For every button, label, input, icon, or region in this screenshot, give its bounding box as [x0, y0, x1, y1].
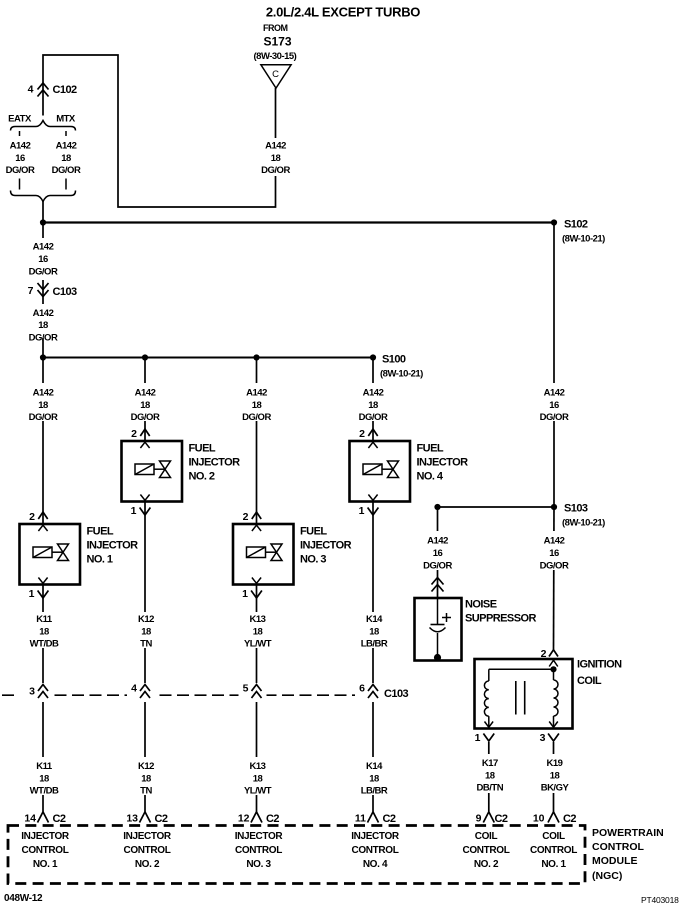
svg-text:C2: C2 — [53, 813, 66, 825]
wire col3 fuel injector 3 down to PCM pin 12 — [256, 585, 258, 812]
svg-text:COIL: COIL — [542, 831, 565, 842]
svg-text:CONTROL: CONTROL — [530, 845, 577, 856]
svg-text:18: 18 — [253, 774, 263, 785]
ignition coil primary junction dot — [550, 666, 556, 672]
MTX branch wire stub — [65, 131, 67, 136]
svg-text:POWERTRAIN: POWERTRAIN — [592, 827, 664, 839]
wire label A142 18 DG/OR (MTX) — [52, 141, 81, 177]
svg-text:DG/OR: DG/OR — [540, 561, 569, 572]
svg-text:18: 18 — [550, 771, 560, 782]
PCM pin 14 chevron C2 — [24, 812, 66, 825]
svg-text:FUEL: FUEL — [300, 526, 327, 538]
svg-text:EATX: EATX — [8, 114, 32, 125]
svg-text:16: 16 — [38, 254, 48, 265]
svg-text:S103: S103 — [564, 503, 588, 515]
fuel injector 1 pin 1 chevron — [38, 591, 49, 599]
svg-text:A142: A142 — [33, 388, 54, 399]
PCM pin 9 chevron C2 — [476, 812, 508, 825]
svg-text:NO. 4: NO. 4 — [363, 859, 388, 870]
svg-text:18: 18 — [369, 774, 379, 785]
svg-text:DG/OR: DG/OR — [29, 412, 58, 423]
svg-text:16: 16 — [549, 548, 559, 559]
ignition coil pin 3 chevron — [548, 734, 559, 742]
svg-text:DG/OR: DG/OR — [359, 412, 388, 423]
wire label K14 18 LB/BR (lower) — [361, 761, 388, 797]
svg-text:18: 18 — [369, 627, 379, 638]
svg-text:LB/BR: LB/BR — [361, 639, 388, 650]
svg-text:13: 13 — [126, 813, 138, 825]
svg-text:DG/OR: DG/OR — [6, 165, 35, 176]
svg-text:INJECTOR: INJECTOR — [300, 540, 352, 552]
wire label A142 18 DG/OR col1 — [29, 388, 58, 424]
svg-text:2: 2 — [131, 428, 137, 440]
wire label K11 18 WT/DB (lower) — [30, 761, 59, 797]
svg-text:NO. 3: NO. 3 — [300, 554, 326, 566]
svg-text:16: 16 — [549, 400, 559, 411]
svg-text:7: 7 — [28, 285, 34, 297]
off-page connector triangle C — [261, 65, 291, 88]
svg-text:1: 1 — [131, 505, 137, 517]
svg-text:C2: C2 — [266, 813, 279, 825]
svg-text:INJECTOR: INJECTOR — [123, 831, 172, 842]
wire noise suppressor node down to noise suppressor — [437, 507, 439, 598]
svg-text:5: 5 — [243, 683, 249, 695]
svg-text:CONTROL: CONTROL — [463, 845, 510, 856]
svg-text:C103: C103 — [53, 286, 78, 298]
svg-text:A142: A142 — [265, 141, 286, 152]
svg-text:WT/DB: WT/DB — [30, 786, 59, 797]
svg-text:MODULE: MODULE — [592, 855, 638, 867]
svg-text:DG/OR: DG/OR — [423, 561, 452, 572]
EATX branch wire stub — [19, 131, 21, 136]
svg-text:DG/OR: DG/OR — [261, 165, 290, 176]
svg-text:K12: K12 — [138, 761, 154, 772]
svg-text:CONTROL: CONTROL — [592, 841, 644, 853]
ignition coil label — [577, 659, 622, 688]
svg-text:A142: A142 — [33, 242, 54, 253]
main bus wire from node to S102 — [43, 221, 554, 223]
svg-text:2.0L/2.4L EXCEPT TURBO: 2.0L/2.4L EXCEPT TURBO — [266, 5, 420, 20]
svg-text:DG/OR: DG/OR — [52, 165, 81, 176]
svg-text:C2: C2 — [495, 813, 508, 825]
svg-text:NO. 1: NO. 1 — [87, 554, 113, 566]
wire label K12 18 TN (lower) — [138, 761, 154, 797]
PCM injector control no. 4 label — [351, 831, 400, 870]
splice S100 — [370, 354, 423, 380]
svg-text:18: 18 — [252, 400, 262, 411]
svg-text:18: 18 — [368, 400, 378, 411]
svg-text:DB/TN: DB/TN — [477, 783, 504, 794]
fuel injector 1 — [20, 524, 81, 585]
svg-text:NO. 2: NO. 2 — [135, 859, 160, 870]
svg-text:K13: K13 — [250, 614, 266, 625]
wire ignition coil pin 3 down to PCM pin 10 — [553, 742, 555, 812]
svg-text:A142: A142 — [427, 536, 448, 547]
svg-text:FUEL: FUEL — [417, 443, 444, 455]
MTX branch lower stub — [65, 179, 67, 190]
noise suppressor label — [465, 599, 537, 625]
svg-text:C2: C2 — [563, 813, 576, 825]
wire col4 S100 down to fuel injector 4 — [372, 358, 374, 442]
fuel injector 4 pin 2 chevron — [368, 429, 377, 436]
svg-text:DG/OR: DG/OR — [242, 412, 271, 423]
svg-text:K19: K19 — [547, 758, 563, 769]
svg-text:K13: K13 — [250, 761, 266, 772]
junction node col3 on S100 bus — [253, 354, 259, 360]
ignition coil pin 2 chevron — [549, 650, 558, 657]
svg-text:INJECTOR: INJECTOR — [235, 831, 284, 842]
fuel injector 1 pin 2 chevron — [38, 512, 47, 519]
svg-text:18: 18 — [39, 774, 49, 785]
svg-text:NO. 4: NO. 4 — [417, 471, 444, 483]
splice S102 — [551, 219, 605, 245]
wire label K11 18 WT/DB (upper) — [30, 614, 59, 650]
svg-text:YL/WT: YL/WT — [244, 639, 272, 650]
wire label A142 16 DG/OR (EATX) — [6, 141, 35, 177]
node at EATX/MTX merge — [40, 219, 46, 225]
svg-text:4: 4 — [131, 683, 137, 695]
wire S103 down to ignition coil pin 2 — [553, 507, 556, 650]
wire ignition coil pin 1 down to PCM pin 9 — [488, 742, 490, 812]
svg-text:NO. 1: NO. 1 — [33, 859, 58, 870]
connector C103 pin 7 chevrons — [38, 283, 49, 297]
svg-text:(NGC): (NGC) — [592, 870, 622, 882]
svg-text:NO. 2: NO. 2 — [474, 859, 499, 870]
svg-text:INJECTOR: INJECTOR — [87, 540, 139, 552]
svg-text:NOISE: NOISE — [465, 599, 497, 611]
ignition coil pin 1 chevron — [483, 734, 494, 742]
svg-text:LB/BR: LB/BR — [361, 786, 388, 797]
fuel injector 2 pin 2 chevron — [140, 429, 149, 436]
PCM injector control no. 3 label — [235, 831, 284, 870]
svg-text:2: 2 — [359, 428, 365, 440]
wire label K17 18 DB/TN — [477, 758, 504, 794]
wire label A142 16 DG/OR (col1 above C103) — [29, 242, 58, 278]
svg-text:16: 16 — [15, 153, 25, 164]
powertrain control module (NGC) dashed box — [8, 826, 585, 884]
wire label A142 18 DG/OR (S173 feed) — [261, 141, 290, 177]
svg-text:INJECTOR: INJECTOR — [21, 831, 70, 842]
svg-text:1: 1 — [475, 732, 481, 744]
svg-text:PT403018: PT403018 — [641, 895, 679, 904]
wire label A142 18 DG/OR (col1 below C103) — [29, 308, 58, 344]
svg-text:S173: S173 — [264, 35, 292, 49]
svg-text:9: 9 — [476, 813, 482, 825]
svg-text:A142: A142 — [10, 141, 31, 152]
label mask rects — [26, 138, 572, 795]
noise suppressor ground dot — [434, 654, 441, 661]
wire col2 S100 bus down to fuel injector 2 — [144, 358, 146, 442]
PCM pin 13 chevron C2 — [126, 812, 168, 825]
svg-text:1: 1 — [29, 588, 35, 600]
option split brace (top) — [11, 121, 76, 131]
wire col1 from EATX/MTX merge node down to S100 bus — [42, 202, 44, 358]
fuel injector 4 — [350, 441, 411, 502]
svg-text:FROM: FROM — [263, 23, 288, 33]
wire col4 fuel injector 4 down to PCM pin 11 — [372, 502, 374, 812]
svg-text:DG/OR: DG/OR — [540, 412, 569, 423]
fuel injector 2 label — [189, 443, 241, 483]
fuel injector 3 pin 2 chevron — [252, 512, 261, 519]
svg-text:INJECTOR: INJECTOR — [417, 457, 469, 469]
PCM pin 12 chevron C2 — [238, 812, 280, 825]
svg-text:A142: A142 — [363, 388, 384, 399]
svg-text:1: 1 — [242, 588, 248, 600]
svg-text:NO. 2: NO. 2 — [189, 471, 215, 483]
svg-text:C103: C103 — [384, 688, 409, 700]
noise suppressor connector chevrons — [432, 578, 444, 592]
junction node col1 on S100 bus — [40, 354, 46, 360]
node label FROM S173 — [254, 23, 297, 62]
svg-text:(8W-10-21): (8W-10-21) — [380, 369, 423, 380]
svg-text:FUEL: FUEL — [87, 526, 114, 538]
svg-text:C: C — [272, 69, 279, 80]
wire col1 S100 bus down to fuel injector 1 — [42, 358, 44, 525]
wire label A142 18 DG/OR col4 — [359, 388, 388, 424]
connector C103 pin 3 chevrons — [38, 685, 48, 699]
svg-text:MTX: MTX — [56, 114, 76, 125]
connector C103 pin 5 chevrons — [252, 685, 262, 699]
wire label A142 18 DG/OR col2 — [131, 388, 160, 424]
svg-text:A142: A142 — [33, 308, 54, 319]
svg-text:TN: TN — [140, 786, 152, 797]
svg-text:YL/WT: YL/WT — [244, 786, 272, 797]
svg-text:1: 1 — [359, 505, 365, 517]
svg-text:18: 18 — [271, 153, 281, 164]
PCM injector control no. 1 label — [21, 831, 70, 870]
svg-text:2: 2 — [243, 511, 249, 523]
PCM pin 10 chevron C2 — [533, 812, 577, 825]
powertrain control module (NGC) label — [592, 827, 664, 882]
svg-text:18: 18 — [38, 400, 48, 411]
EATX branch lower stub — [19, 179, 21, 190]
svg-text:A142: A142 — [56, 141, 77, 152]
noise suppressor — [415, 598, 462, 661]
svg-text:CONTROL: CONTROL — [22, 845, 69, 856]
PCM coil control no. 2 label — [463, 831, 510, 870]
svg-text:11: 11 — [355, 813, 366, 825]
fuel injector 3 label — [300, 526, 352, 566]
svg-text:(8W-10-21): (8W-10-21) — [562, 518, 605, 529]
svg-text:K17: K17 — [482, 758, 498, 769]
svg-text:A142: A142 — [246, 388, 267, 399]
connector C102 pin 4 chevrons — [38, 83, 49, 97]
svg-text:K14: K14 — [366, 761, 383, 772]
svg-text:14: 14 — [24, 813, 36, 825]
svg-text:FUEL: FUEL — [189, 443, 216, 455]
fuel injector 3 — [233, 524, 294, 585]
svg-text:DG/OR: DG/OR — [29, 333, 58, 344]
svg-text:INJECTOR: INJECTOR — [351, 831, 400, 842]
connector C103 pin 6 chevrons — [368, 685, 378, 699]
svg-text:12: 12 — [238, 813, 250, 825]
wire label K13 18 YL/WT (lower) — [244, 761, 272, 797]
wire col3 S100 bus down to fuel injector 3 — [256, 358, 258, 525]
S100 bus wire — [43, 357, 373, 359]
PCM pin 11 chevron C2 — [355, 812, 396, 825]
svg-text:18: 18 — [141, 774, 151, 785]
svg-text:TN: TN — [140, 639, 152, 650]
svg-text:S100: S100 — [382, 354, 406, 366]
svg-text:WT/DB: WT/DB — [30, 639, 59, 650]
wire label K19 18 BK/GY — [541, 758, 570, 794]
svg-text:4: 4 — [28, 84, 34, 96]
svg-text:IGNITION: IGNITION — [577, 659, 622, 671]
svg-text:18: 18 — [39, 627, 49, 638]
svg-text:18: 18 — [38, 320, 48, 331]
svg-text:SUPPRESSOR: SUPPRESSOR — [465, 613, 537, 625]
PCM coil control no. 1 label — [530, 831, 577, 870]
svg-text:18: 18 — [141, 627, 151, 638]
wire label A142 18 DG/OR col3 — [242, 388, 271, 424]
svg-text:BK/GY: BK/GY — [541, 783, 570, 794]
svg-text:3: 3 — [29, 686, 35, 698]
wire col1 fuel injector 1 down to PCM pin 14 — [42, 585, 44, 812]
svg-text:S102: S102 — [564, 219, 588, 231]
svg-text:NO. 3: NO. 3 — [246, 859, 271, 870]
svg-text:18: 18 — [253, 627, 263, 638]
fuel injector 3 pin 1 chevron — [251, 591, 262, 599]
svg-text:C2: C2 — [383, 813, 396, 825]
fuel injector 4 pin 1 chevron — [368, 508, 379, 516]
svg-text:18: 18 — [485, 771, 495, 782]
wire S102 down to S103 — [553, 223, 555, 508]
svg-text:K11: K11 — [36, 614, 53, 625]
svg-text:10: 10 — [533, 813, 545, 825]
svg-text:INJECTOR: INJECTOR — [189, 457, 241, 469]
svg-text:COIL: COIL — [577, 675, 602, 687]
wire col2 fuel injector 2 down to PCM pin 13 — [144, 502, 146, 812]
svg-text:C2: C2 — [155, 813, 168, 825]
svg-text:16: 16 — [433, 548, 443, 559]
wire label K14 18 LB/BR (upper) — [361, 614, 388, 650]
svg-text:NO. 1: NO. 1 — [541, 859, 566, 870]
svg-text:COIL: COIL — [475, 831, 498, 842]
svg-text:CONTROL: CONTROL — [235, 845, 282, 856]
svg-text:18: 18 — [140, 400, 150, 411]
wire label K13 18 YL/WT (upper) — [244, 614, 272, 650]
PCM injector control no. 2 label — [123, 831, 172, 870]
svg-text:(8W-30-15): (8W-30-15) — [254, 51, 297, 62]
option merge brace (bottom) — [11, 191, 76, 202]
wire S103 left to noise suppressor node — [438, 506, 555, 508]
svg-text:CONTROL: CONTROL — [352, 845, 399, 856]
splice S103 — [551, 503, 605, 529]
svg-text:A142: A142 — [544, 536, 565, 547]
ignition coil — [475, 659, 573, 729]
svg-text:K12: K12 — [138, 614, 154, 625]
svg-text:18: 18 — [61, 153, 71, 164]
svg-text:048W-12: 048W-12 — [4, 893, 43, 904]
svg-text:DG/OR: DG/OR — [29, 267, 58, 278]
connector C103 pin 4 chevrons — [140, 685, 150, 699]
fuel injector 1 label — [87, 526, 139, 566]
fuel injector 2 pin 1 chevron — [140, 508, 151, 516]
junction node noise suppressor tap — [434, 504, 440, 510]
wire label K12 18 TN (upper) — [138, 614, 154, 650]
svg-text:2: 2 — [29, 511, 35, 523]
dashed connector C103 line — [2, 683, 383, 702]
svg-text:K14: K14 — [366, 614, 383, 625]
svg-text:3: 3 — [540, 732, 546, 744]
svg-text:(8W-10-21): (8W-10-21) — [562, 234, 605, 245]
wire from connector C102 up and over to splice S173 feed — [43, 55, 276, 207]
svg-text:DG/OR: DG/OR — [131, 412, 160, 423]
fuel injector 4 label — [417, 443, 469, 483]
wire label A142 16 DG/OR (S103 to coil) — [540, 536, 569, 572]
svg-text:A142: A142 — [544, 388, 565, 399]
wire label A142 16 DG/OR (noise suppressor) — [423, 536, 452, 572]
wire label A142 16 DG/OR right col — [540, 388, 569, 424]
fuel injector 2 — [122, 441, 183, 502]
svg-text:CONTROL: CONTROL — [124, 845, 171, 856]
svg-text:C102: C102 — [53, 84, 78, 96]
svg-text:K11: K11 — [36, 761, 53, 772]
svg-text:6: 6 — [359, 683, 365, 695]
svg-text:A142: A142 — [135, 388, 156, 399]
junction node col2 on S100 bus — [142, 354, 148, 360]
